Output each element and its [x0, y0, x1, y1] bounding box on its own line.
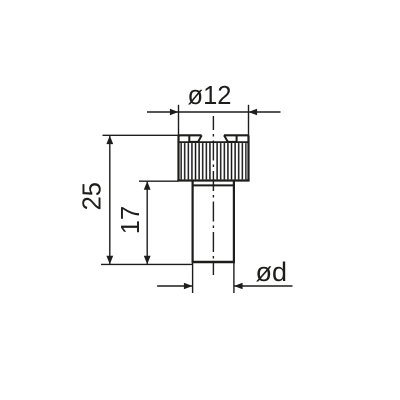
knurl hatching: [180, 143, 247, 179]
extension line right of ø12: [248, 105, 250, 136]
shaft: [192, 180, 236, 262]
dimension line ød: [157, 283, 292, 290]
dimension line 25: [106, 136, 113, 265]
label 25: [79, 182, 107, 210]
label 17: [117, 206, 145, 234]
svg-text:17: 17: [117, 206, 145, 234]
shaft collar line: [193, 184, 234, 186]
label ø12: [188, 82, 232, 110]
centerline: [212, 116, 214, 275]
svg-text:ød: ød: [256, 257, 288, 287]
extension line for 17: [139, 180, 179, 182]
extension line below shaft right: [233, 263, 235, 293]
knurl band top line: [179, 141, 249, 143]
svg-text:ø12: ø12: [188, 82, 232, 110]
knurled head outline: [177, 135, 249, 180]
extension line below shaft left: [192, 263, 194, 293]
extension line left of ø12: [178, 105, 180, 136]
dimension line ø12: [147, 109, 281, 116]
slot wall left trapezoid: [189, 135, 201, 142]
extension line bottom reference: [101, 263, 193, 265]
dimension line 17: [144, 181, 151, 264]
slot wall right trapezoid: [224, 135, 237, 142]
extension line top reference for 25: [103, 134, 179, 136]
centerline halo through knurl: [212, 143, 215, 179]
label ød: [256, 257, 288, 287]
svg-text:25: 25: [79, 182, 107, 210]
